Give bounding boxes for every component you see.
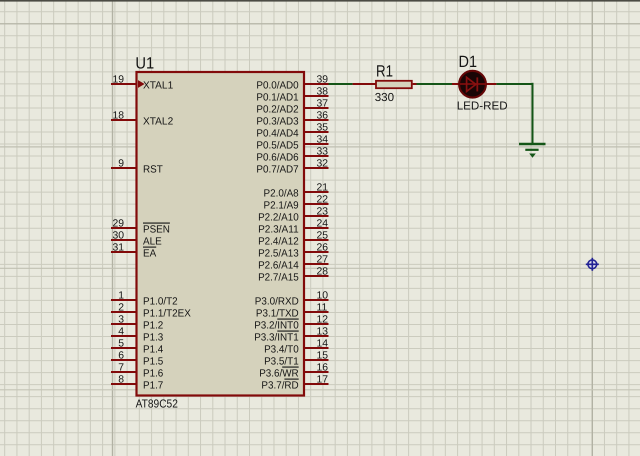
- svg-text:28: 28: [317, 266, 329, 277]
- svg-text:P2.7/A15: P2.7/A15: [258, 273, 299, 284]
- svg-text:25: 25: [317, 230, 329, 241]
- svg-text:8: 8: [118, 374, 124, 385]
- svg-text:36: 36: [317, 110, 329, 121]
- svg-text:P3.1/TXD: P3.1/TXD: [256, 309, 299, 320]
- svg-text:P2.1/A9: P2.1/A9: [264, 201, 299, 212]
- svg-text:12: 12: [317, 314, 329, 325]
- svg-text:U1: U1: [135, 54, 154, 72]
- svg-text:13: 13: [317, 326, 329, 337]
- svg-text:31: 31: [112, 242, 124, 253]
- svg-text:17: 17: [317, 374, 329, 385]
- svg-text:26: 26: [317, 242, 329, 253]
- svg-text:P3.0/RXD: P3.0/RXD: [255, 297, 299, 308]
- svg-text:3: 3: [118, 314, 124, 325]
- svg-text:35: 35: [317, 122, 329, 133]
- svg-text:P0.7/AD7: P0.7/AD7: [256, 165, 299, 176]
- svg-text:27: 27: [317, 254, 329, 265]
- svg-text:P3.5/T1: P3.5/T1: [264, 357, 299, 368]
- svg-text:7: 7: [118, 362, 124, 373]
- svg-text:P1.0/T2: P1.0/T2: [143, 297, 178, 308]
- svg-text:2: 2: [118, 302, 124, 313]
- svg-text:32: 32: [317, 158, 329, 169]
- svg-text:38: 38: [317, 86, 329, 97]
- svg-text:P1.7: P1.7: [143, 381, 164, 392]
- svg-text:XTAL1: XTAL1: [143, 81, 173, 92]
- svg-text:15: 15: [317, 350, 329, 361]
- svg-text:P3.6/WR: P3.6/WR: [259, 369, 299, 380]
- svg-text:AT89C52: AT89C52: [136, 398, 178, 411]
- svg-text:30: 30: [112, 230, 124, 241]
- svg-text:P3.7/RD: P3.7/RD: [261, 381, 298, 392]
- svg-text:LED-RED: LED-RED: [457, 99, 508, 112]
- svg-text:9: 9: [118, 158, 124, 169]
- svg-text:PSEN: PSEN: [143, 225, 170, 236]
- svg-text:5: 5: [118, 338, 124, 349]
- svg-text:29: 29: [112, 218, 124, 229]
- svg-text:P2.3/A11: P2.3/A11: [258, 225, 299, 236]
- svg-text:14: 14: [317, 338, 329, 349]
- svg-text:4: 4: [118, 326, 124, 337]
- svg-text:330: 330: [375, 91, 394, 104]
- svg-text:ALE: ALE: [143, 237, 162, 248]
- svg-text:RST: RST: [143, 165, 163, 176]
- svg-text:6: 6: [118, 350, 124, 361]
- svg-text:19: 19: [112, 74, 124, 85]
- svg-text:P2.4/A12: P2.4/A12: [258, 237, 299, 248]
- svg-text:XTAL2: XTAL2: [143, 117, 173, 128]
- svg-text:P1.6: P1.6: [143, 369, 164, 380]
- svg-text:P3.2/INT0: P3.2/INT0: [254, 321, 299, 332]
- svg-text:P2.2/A10: P2.2/A10: [258, 213, 299, 224]
- svg-text:P2.0/A8: P2.0/A8: [264, 189, 299, 200]
- svg-text:P1.5: P1.5: [143, 357, 164, 368]
- svg-text:P2.6/A14: P2.6/A14: [258, 261, 299, 272]
- svg-text:P3.3/INT1: P3.3/INT1: [254, 333, 299, 344]
- svg-text:P0.4/AD4: P0.4/AD4: [256, 129, 299, 140]
- svg-text:22: 22: [317, 194, 329, 205]
- svg-text:R1: R1: [376, 62, 393, 80]
- svg-text:P0.5/AD5: P0.5/AD5: [256, 141, 299, 152]
- svg-text:18: 18: [112, 110, 124, 121]
- svg-text:P0.0/AD0: P0.0/AD0: [256, 81, 299, 92]
- svg-text:P1.1/T2EX: P1.1/T2EX: [143, 309, 191, 320]
- svg-text:23: 23: [317, 206, 329, 217]
- svg-text:P0.2/AD2: P0.2/AD2: [256, 105, 299, 116]
- svg-text:33: 33: [317, 146, 329, 157]
- svg-text:P1.4: P1.4: [143, 345, 164, 356]
- svg-text:P0.1/AD1: P0.1/AD1: [256, 93, 299, 104]
- svg-text:P0.3/AD3: P0.3/AD3: [256, 117, 299, 128]
- svg-text:EA: EA: [143, 249, 156, 260]
- svg-text:P0.6/AD6: P0.6/AD6: [256, 153, 299, 164]
- svg-text:24: 24: [317, 218, 329, 229]
- svg-text:37: 37: [317, 98, 329, 109]
- svg-text:P2.5/A13: P2.5/A13: [258, 249, 299, 260]
- svg-text:P3.4/T0: P3.4/T0: [264, 345, 299, 356]
- svg-text:34: 34: [317, 134, 329, 145]
- svg-text:1: 1: [118, 290, 124, 301]
- svg-text:39: 39: [317, 74, 329, 85]
- svg-text:21: 21: [317, 182, 329, 193]
- svg-text:D1: D1: [459, 53, 478, 71]
- svg-text:16: 16: [317, 362, 329, 373]
- svg-text:P1.3: P1.3: [143, 333, 164, 344]
- svg-text:10: 10: [317, 290, 329, 301]
- svg-text:11: 11: [317, 302, 328, 313]
- svg-text:P1.2: P1.2: [143, 321, 164, 332]
